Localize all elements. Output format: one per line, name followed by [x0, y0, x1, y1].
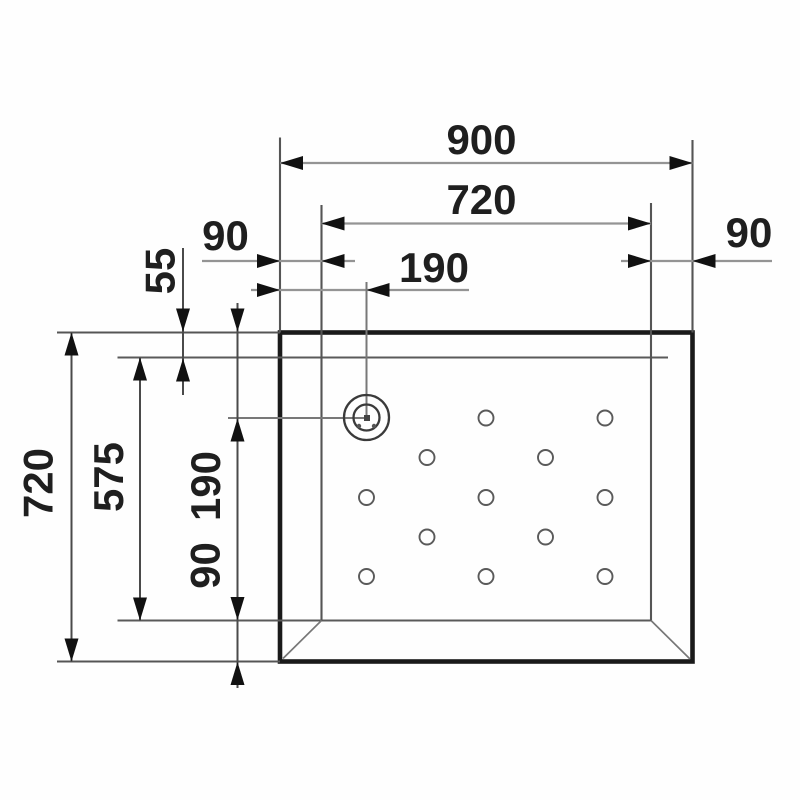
- drain outer circle: [344, 395, 389, 440]
- drain vertical centerline: [366, 282, 368, 418]
- svg-text:190: 190: [399, 244, 469, 291]
- tray outer edge: [280, 333, 693, 662]
- bevel diagonal bottom-right: [651, 621, 690, 660]
- dim 900 arrow left: [280, 156, 303, 170]
- dim 720v arrow top: [65, 333, 79, 356]
- dim 900 arrow right: [670, 156, 693, 170]
- svg-text:575: 575: [85, 442, 132, 512]
- dim 90R arrow inner: [628, 254, 651, 268]
- dim 90 left line: [202, 260, 355, 262]
- dim 575 line: [139, 358, 141, 621]
- dim 90v arrow lower: [231, 662, 245, 685]
- svg-text:190: 190: [182, 451, 229, 521]
- dim 190h arrow left: [257, 283, 280, 297]
- top edge reference line left: [57, 332, 280, 334]
- dim 90v arrow upper: [231, 597, 245, 620]
- dot r4c2: [420, 530, 435, 545]
- svg-text:90: 90: [182, 542, 229, 589]
- dim 55 line: [182, 248, 184, 395]
- dot r2c4: [538, 450, 553, 465]
- drain strainer dot left: [357, 424, 361, 428]
- drain center mark: [364, 415, 370, 421]
- dim 575 arrow top: [133, 358, 147, 381]
- drain horizontal centerline: [228, 417, 367, 419]
- dim 720v arrow bottom: [65, 639, 79, 662]
- tray inner bottom edge: [118, 620, 652, 622]
- svg-text:900: 900: [446, 116, 516, 163]
- dim 720h arrow right: [628, 217, 651, 231]
- dim 190/90 vertical line: [237, 303, 239, 688]
- dim 90L arrow outer: [257, 254, 280, 268]
- dim 55 arrow upper: [176, 309, 190, 332]
- dot r3c5: [598, 490, 613, 505]
- dim 190 horizontal line: [251, 289, 469, 291]
- svg-text:90: 90: [202, 212, 249, 259]
- 900 extension line left: [279, 138, 281, 333]
- dim 190h arrow right: [367, 283, 390, 297]
- dim 90 right line: [621, 260, 772, 262]
- dot r5c5: [598, 569, 613, 584]
- svg-text:55: 55: [137, 248, 184, 295]
- svg-text:720: 720: [15, 448, 62, 518]
- dim 720h arrow left: [322, 217, 345, 231]
- dot r3c1: [359, 490, 374, 505]
- dot r5c1: [359, 569, 374, 584]
- anti-slip dots: [359, 411, 613, 585]
- tray inner left edge / 720 extension: [320, 205, 322, 621]
- dim 900 line: [280, 162, 693, 164]
- svg-text:90: 90: [726, 209, 773, 256]
- tray inner right edge / 720 extension: [650, 203, 652, 621]
- dim 190v arrow upper: [231, 309, 245, 332]
- dot r5c3: [479, 569, 494, 584]
- dim 55 arrow lower: [176, 359, 190, 382]
- dot r4c4: [538, 530, 553, 545]
- dot r1c3: [479, 411, 494, 426]
- tray inner top edge: [118, 357, 669, 359]
- dim 90R arrow outer: [693, 254, 716, 268]
- dim 90L arrow inner: [322, 254, 345, 268]
- dim 720 vertical line: [71, 333, 73, 662]
- dim 575 arrow bottom: [133, 598, 147, 621]
- dot r1c5: [598, 411, 613, 426]
- dot r3c3: [479, 490, 494, 505]
- drain inner circle: [354, 405, 380, 431]
- bevel diagonal bottom-left: [283, 621, 322, 659]
- dim 720 horizontal line: [322, 222, 652, 224]
- svg-text:720: 720: [446, 176, 516, 223]
- dim 190v arrow lower: [231, 419, 245, 442]
- 900 extension line right: [691, 140, 693, 333]
- dot r2c2: [420, 450, 435, 465]
- bottom edge reference line left: [57, 661, 280, 663]
- drain strainer dot right: [372, 424, 376, 428]
